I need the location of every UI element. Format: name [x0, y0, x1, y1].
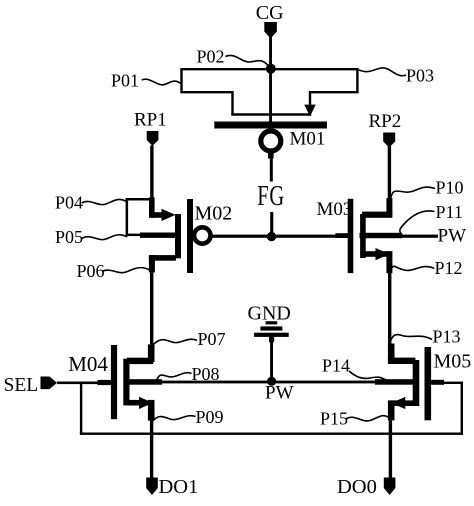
svg-text:P11: P11	[436, 202, 463, 222]
svg-text:P02: P02	[197, 47, 225, 67]
svg-text:P05: P05	[55, 227, 83, 247]
svg-text:P13: P13	[433, 327, 461, 347]
svg-text:M02: M02	[195, 202, 233, 224]
svg-text:P10: P10	[436, 178, 464, 198]
svg-text:P15: P15	[320, 409, 348, 429]
svg-text:RP2: RP2	[369, 111, 402, 132]
svg-text:M03: M03	[317, 199, 353, 220]
svg-text:DO1: DO1	[159, 476, 199, 498]
svg-text:FG: FG	[257, 181, 285, 212]
svg-text:P12: P12	[435, 258, 463, 278]
svg-text:P06: P06	[77, 261, 105, 281]
svg-text:DO0: DO0	[337, 476, 377, 498]
svg-text:GND: GND	[248, 303, 291, 325]
svg-text:PW: PW	[438, 226, 467, 247]
svg-text:RP1: RP1	[134, 110, 167, 131]
svg-text:CG: CG	[256, 2, 284, 24]
svg-text:P14: P14	[322, 356, 350, 376]
svg-text:P03: P03	[406, 66, 434, 86]
svg-text:SEL: SEL	[4, 375, 39, 396]
svg-text:P01: P01	[111, 71, 139, 91]
svg-text:P08: P08	[192, 364, 220, 384]
svg-text:PW: PW	[265, 383, 294, 404]
svg-text:P07: P07	[198, 329, 226, 349]
svg-text:P09: P09	[196, 407, 224, 427]
svg-text:P04: P04	[55, 193, 83, 213]
svg-text:M04: M04	[68, 352, 108, 376]
svg-text:M01: M01	[290, 129, 326, 150]
svg-text:M05: M05	[434, 351, 472, 373]
